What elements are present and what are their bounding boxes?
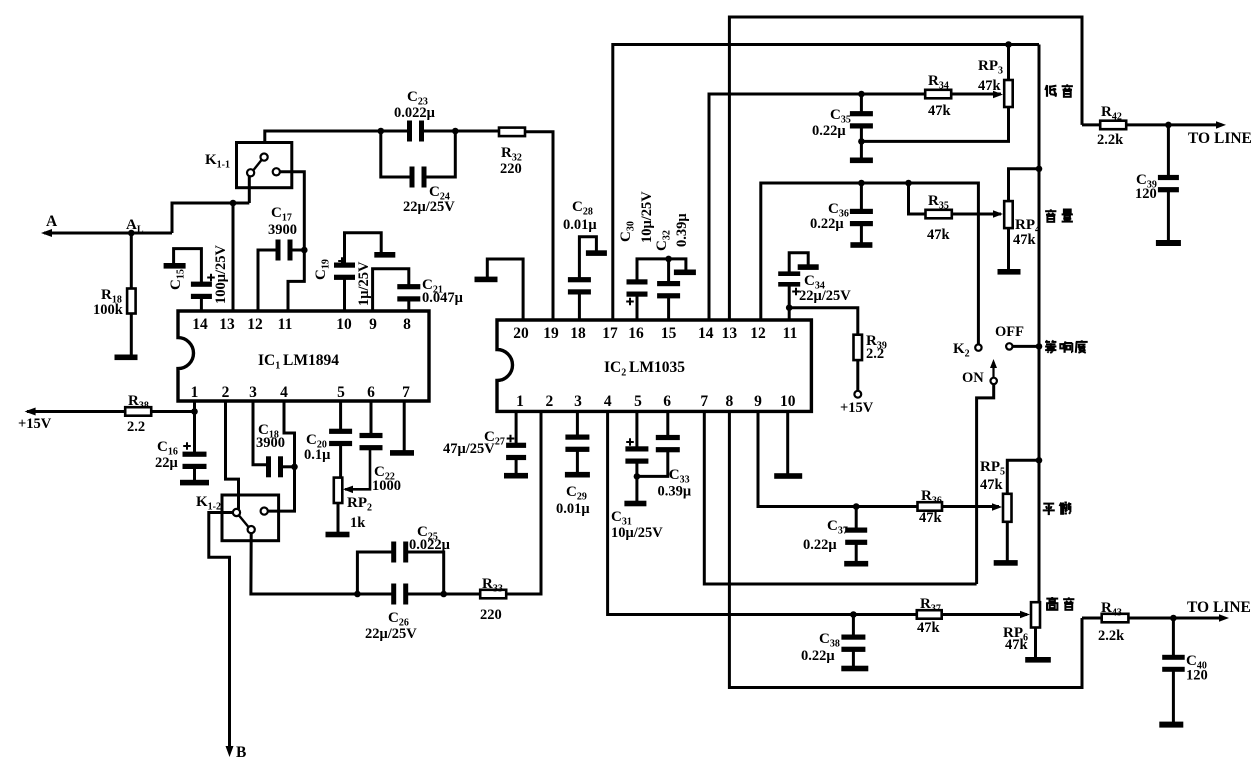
svg-text:13: 13 bbox=[722, 325, 738, 342]
switch K1-2 bbox=[196, 494, 279, 541]
wire IC2 pin 7 to K2 ON bbox=[704, 411, 976, 584]
svg-text:47k: 47k bbox=[980, 477, 1004, 493]
label treble (gaoyin) bbox=[1051, 597, 1053, 598]
capacitor C15 100u/25V bbox=[168, 245, 229, 311]
resistor R39 2.2 bbox=[789, 308, 887, 398]
wire IC2 pin 14 to bass line bbox=[709, 94, 861, 320]
svg-text:7: 7 bbox=[402, 384, 410, 401]
svg-text:9: 9 bbox=[754, 393, 762, 410]
svg-text:19: 19 bbox=[543, 325, 559, 342]
svg-text:9: 9 bbox=[369, 316, 377, 333]
svg-text:3900: 3900 bbox=[268, 222, 297, 238]
capacitor C38 0.22u bbox=[801, 611, 865, 666]
ground under C38 bbox=[841, 666, 868, 672]
svg-text:11: 11 bbox=[783, 325, 798, 342]
ground under C39 bbox=[1156, 240, 1181, 246]
IC2 pin 20 ground bracket bbox=[475, 259, 524, 320]
svg-text:10: 10 bbox=[336, 316, 352, 333]
svg-text:ON: ON bbox=[962, 370, 984, 386]
svg-text:3900: 3900 bbox=[256, 435, 285, 451]
IC1 pin 1 wire bbox=[193, 401, 196, 453]
ground for C19 bbox=[374, 252, 395, 258]
svg-text:47k: 47k bbox=[1013, 232, 1037, 248]
IC1 pin 7 ground bbox=[390, 401, 414, 456]
wire K2 ON contact down to pin7 line bbox=[977, 384, 994, 584]
svg-text:LM1035: LM1035 bbox=[629, 359, 685, 376]
svg-text:2: 2 bbox=[222, 384, 230, 401]
svg-text:0.39μ: 0.39μ bbox=[658, 484, 692, 500]
svg-text:47k: 47k bbox=[928, 103, 952, 119]
capacitor C24 22u/25V bbox=[381, 131, 456, 215]
svg-text:16: 16 bbox=[628, 325, 644, 342]
ground under C35 bbox=[850, 158, 873, 164]
svg-text:100k: 100k bbox=[93, 302, 124, 318]
wire IC2 pin 17 to top bus bbox=[613, 45, 1039, 321]
svg-text:15: 15 bbox=[661, 325, 677, 342]
svg-text:+15V: +15V bbox=[840, 400, 874, 416]
capacitor C27 47u/25V bbox=[443, 411, 526, 473]
node A output arrow bbox=[41, 213, 172, 237]
ground for C34 bbox=[798, 264, 819, 270]
svg-text:LM1894: LM1894 bbox=[283, 352, 339, 369]
ground under C16 bbox=[180, 480, 209, 486]
ground under C36 bbox=[850, 242, 872, 248]
svg-text:1: 1 bbox=[516, 393, 524, 410]
wire IC2 pin 13 to top line bbox=[729, 17, 1082, 320]
svg-text:4: 4 bbox=[280, 384, 288, 401]
IC2 pin numbers bottom row bbox=[516, 393, 796, 410]
svg-text:3: 3 bbox=[249, 384, 257, 401]
capacitor C39 120 bbox=[1135, 125, 1179, 241]
svg-text:5: 5 bbox=[337, 384, 345, 401]
svg-text:7: 7 bbox=[700, 393, 708, 410]
svg-text:0.22μ: 0.22μ bbox=[810, 216, 844, 232]
wire R33 to IC2 pin 2 bbox=[506, 411, 541, 594]
capacitor C40 120 bbox=[1162, 618, 1208, 722]
capacitor C37 0.22u bbox=[803, 503, 867, 561]
label volume (yinliang) bbox=[1050, 209, 1052, 211]
resistor R18 100k bbox=[93, 233, 136, 355]
wire node to IC1 pin 13 bbox=[232, 203, 235, 311]
potentiometer RP4 47k bbox=[1004, 166, 1042, 270]
wire K1-2 bottom contact to C26 bbox=[251, 533, 358, 594]
capacitor C26 22u/25V bbox=[354, 584, 447, 643]
svg-text:3: 3 bbox=[574, 393, 582, 410]
wire IC2 pin 4 to treble line bbox=[608, 411, 854, 614]
ground under C31 bbox=[624, 501, 646, 507]
svg-text:0.1μ: 0.1μ bbox=[304, 447, 331, 463]
svg-text:120: 120 bbox=[1186, 668, 1208, 684]
svg-text:120: 120 bbox=[1135, 186, 1157, 202]
capacitor C20 0.1u bbox=[304, 401, 352, 478]
svg-text:0.22μ: 0.22μ bbox=[801, 648, 835, 664]
svg-text:10μ/25V: 10μ/25V bbox=[611, 525, 663, 541]
svg-text:2.2k: 2.2k bbox=[1098, 628, 1125, 644]
switch K1-1 bbox=[205, 143, 292, 188]
svg-text:8: 8 bbox=[726, 393, 734, 410]
resistor R43 2.2k bbox=[1082, 600, 1173, 644]
potentiometer RP3 47k bbox=[861, 41, 1012, 141]
svg-text:8: 8 bbox=[403, 316, 411, 333]
svg-text:220: 220 bbox=[480, 607, 502, 623]
ground under RP4 bbox=[998, 269, 1021, 275]
switch K2 loudness bbox=[953, 324, 1042, 386]
ground under C37 bbox=[844, 561, 868, 567]
svg-text:47k: 47k bbox=[978, 78, 1002, 94]
svg-text:1k: 1k bbox=[350, 515, 366, 531]
svg-text:+15V: +15V bbox=[18, 416, 52, 432]
IC2 pin 10 ground bbox=[774, 411, 802, 478]
potentiometer RP6 47k bbox=[1003, 602, 1040, 657]
svg-text:22μ: 22μ bbox=[155, 455, 179, 471]
svg-text:47μ/25V: 47μ/25V bbox=[443, 441, 495, 457]
svg-text:TO LINE: TO LINE bbox=[1187, 599, 1251, 616]
svg-text:10: 10 bbox=[780, 393, 796, 410]
svg-text:17: 17 bbox=[602, 325, 618, 342]
capacitor C25 0.022u bbox=[357, 524, 450, 594]
wire K1-1 right contact to IC1 pin 11 bbox=[280, 172, 304, 311]
capacitor C32 0.39u bbox=[654, 213, 690, 320]
wire IC2 pin 8 to R43 bbox=[729, 411, 1082, 687]
svg-text:22μ/25V: 22μ/25V bbox=[365, 626, 417, 642]
capacitor C34 22u/25V bbox=[778, 253, 851, 320]
resistor R42 2.2k bbox=[1082, 104, 1168, 148]
TO LINE output top bbox=[1165, 121, 1252, 147]
svg-text:14: 14 bbox=[698, 325, 714, 342]
junction node at pin13 bbox=[230, 200, 237, 207]
wire IC1 pin 4 to K1-2 right contact bbox=[268, 401, 295, 511]
svg-text:47k: 47k bbox=[917, 620, 941, 636]
capacitor C21 0.047u bbox=[373, 269, 464, 311]
svg-text:0.22μ: 0.22μ bbox=[803, 537, 837, 553]
svg-text:12: 12 bbox=[750, 325, 766, 342]
svg-text:OFF: OFF bbox=[995, 324, 1024, 340]
ground under C29 bbox=[565, 472, 590, 478]
resistor R35 47k bbox=[905, 180, 1003, 243]
svg-text:13: 13 bbox=[219, 316, 235, 333]
svg-text:0.01μ: 0.01μ bbox=[556, 501, 590, 517]
potentiometer RP2 1k bbox=[334, 448, 372, 532]
capacitor C16 22u bbox=[155, 439, 207, 480]
svg-text:220: 220 bbox=[500, 161, 522, 177]
wire K1-1 top to C23 bbox=[265, 131, 381, 143]
label loudness (dengxiangdu) bbox=[1046, 341, 1048, 343]
ground under R18 bbox=[115, 355, 138, 361]
svg-text:22μ/25V: 22μ/25V bbox=[799, 288, 851, 304]
svg-text:1000: 1000 bbox=[372, 478, 401, 494]
svg-text:1μ/25V: 1μ/25V bbox=[356, 261, 372, 306]
ground under C40 bbox=[1159, 722, 1183, 728]
svg-text:0.047μ: 0.047μ bbox=[422, 290, 464, 306]
wire volume line to K2 bbox=[861, 183, 978, 344]
capacitor C18 3900 bbox=[253, 401, 295, 477]
svg-text:5: 5 bbox=[634, 393, 642, 410]
wire IC1 pin 2 to K1-2 bbox=[226, 401, 239, 509]
svg-text:0.022μ: 0.022μ bbox=[409, 537, 451, 553]
svg-text:6: 6 bbox=[367, 384, 375, 401]
capacitor C31 10u/25V bbox=[611, 411, 663, 541]
resistor R38 2.2 bbox=[125, 393, 194, 435]
svg-text:11: 11 bbox=[278, 316, 293, 333]
svg-text:20: 20 bbox=[513, 325, 529, 342]
resistor R34 47k bbox=[861, 73, 1003, 119]
op-amp/IC U1: IC1 LM1894 bbox=[178, 311, 429, 401]
wire K1-1 lower contact to node bbox=[248, 177, 251, 204]
ground for C28 bbox=[586, 250, 607, 256]
ground under RP6 bbox=[1025, 657, 1051, 663]
+15V supply arrow bbox=[18, 408, 125, 433]
svg-text:100μ/25V: 100μ/25V bbox=[213, 245, 229, 304]
ground for C30/C32 bbox=[674, 270, 696, 276]
svg-text:2.2k: 2.2k bbox=[1097, 132, 1124, 148]
IC1 pin numbers top row bbox=[192, 316, 411, 333]
capacitor C22 1000 bbox=[360, 401, 402, 494]
label bass (diyin) bbox=[1045, 85, 1047, 90]
wire K1-2 left contact to node B bbox=[209, 513, 233, 753]
svg-text:22μ/25V: 22μ/25V bbox=[403, 199, 455, 215]
svg-text:2: 2 bbox=[546, 393, 554, 410]
capacitor C19 1u/25V bbox=[313, 233, 381, 311]
resistor R33 220 bbox=[444, 576, 507, 623]
right vertical bus bbox=[1038, 45, 1041, 603]
svg-text:14: 14 bbox=[192, 316, 208, 333]
svg-text:2.2: 2.2 bbox=[127, 419, 145, 435]
svg-text:18: 18 bbox=[570, 325, 586, 342]
IC1 pin numbers bottom row bbox=[191, 384, 411, 401]
node AL label bbox=[126, 217, 144, 236]
wire IC2 pin 12 to volume line bbox=[761, 183, 862, 320]
svg-text:B: B bbox=[236, 744, 246, 761]
capacitor C17 3900 bbox=[258, 205, 308, 311]
wire AL to K1-1/pin13 bbox=[172, 203, 249, 233]
svg-text:6: 6 bbox=[663, 393, 671, 410]
ground under C27 bbox=[504, 473, 528, 479]
resistor R37 47k bbox=[853, 596, 1030, 636]
svg-text:0.022μ: 0.022μ bbox=[394, 105, 436, 121]
svg-text:0.01μ: 0.01μ bbox=[563, 217, 597, 233]
svg-text:2.2: 2.2 bbox=[866, 346, 884, 362]
label balance (pingheng) bbox=[1043, 503, 1054, 505]
svg-text:47k: 47k bbox=[927, 227, 951, 243]
svg-text:TO LINE: TO LINE bbox=[1188, 130, 1252, 147]
capacitor C36 0.22u bbox=[810, 180, 873, 243]
wire IC2 pin 9 to balance line bbox=[758, 411, 856, 506]
capacitor C23 0.022u bbox=[378, 89, 459, 142]
op-amp/IC U2: IC2 LM1035 bbox=[497, 320, 811, 411]
capacitor C28 0.01u bbox=[563, 199, 597, 320]
capacitor C30 10u/25V bbox=[618, 191, 686, 320]
ground under RP5 bbox=[994, 560, 1018, 566]
potentiometer RP5 47k bbox=[980, 457, 1042, 561]
svg-text:10μ/25V: 10μ/25V bbox=[639, 191, 655, 243]
capacitor C29 0.01u bbox=[556, 411, 590, 517]
svg-text:4: 4 bbox=[604, 393, 612, 410]
capacitor C33 0.39u bbox=[637, 411, 692, 499]
ground for C15 bbox=[164, 263, 186, 269]
TO LINE output bottom bbox=[1170, 599, 1251, 622]
svg-text:47k: 47k bbox=[1005, 637, 1029, 653]
wire R32 to IC2 pin 19 bbox=[525, 132, 553, 320]
svg-text:12: 12 bbox=[247, 316, 263, 333]
resistor R32 220 bbox=[455, 128, 525, 177]
svg-text:0.39μ: 0.39μ bbox=[674, 213, 690, 247]
capacitor C35 0.22u bbox=[812, 91, 873, 158]
svg-text:A: A bbox=[46, 213, 58, 230]
ground under RP2 bbox=[326, 532, 350, 538]
svg-text:0.22μ: 0.22μ bbox=[812, 123, 846, 139]
node B arrow bbox=[226, 744, 247, 761]
resistor R36 47k bbox=[856, 488, 1002, 526]
svg-text:47k: 47k bbox=[919, 510, 943, 526]
svg-text:1: 1 bbox=[191, 384, 199, 401]
IC2 pin numbers top row bbox=[513, 325, 797, 342]
